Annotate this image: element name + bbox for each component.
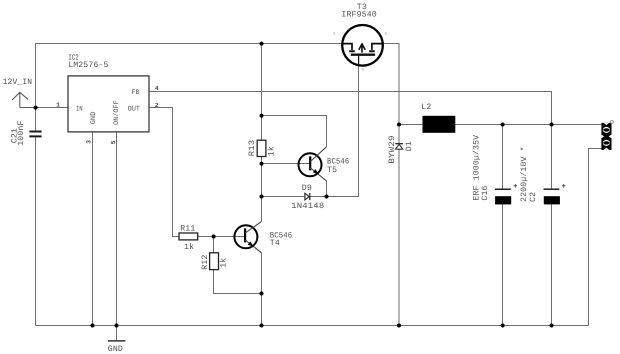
svg-text:BYW29: BYW29 bbox=[388, 135, 397, 164]
pin number 3 (IC2 GND) bbox=[86, 140, 93, 144]
wire C21 branch down to ground rail bbox=[35, 108, 37, 326]
svg-text:D1: D1 bbox=[405, 141, 414, 151]
svg-text:2: 2 bbox=[155, 102, 159, 109]
svg-text:1k: 1k bbox=[268, 146, 277, 156]
resistor R12 1k bbox=[201, 253, 229, 270]
pin number 1 (IC2 IN) bbox=[56, 102, 60, 109]
svg-text:R13: R13 bbox=[248, 140, 257, 157]
svg-text:3: 3 bbox=[86, 140, 93, 144]
op-amp IC2 LM2576-5 regulator box bbox=[68, 54, 149, 132]
svg-text:1k: 1k bbox=[184, 243, 194, 252]
transistor T4 BC546 bbox=[234, 221, 292, 252]
node T5 collector tap bbox=[260, 114, 264, 118]
wire FB feedback from IC2 pin 4 to output node bbox=[150, 92, 552, 125]
node D9 anode / T4 collector bbox=[260, 195, 264, 199]
transistor T3 IRF9540 p-mosfet bbox=[333, 3, 388, 73]
node C2 top / FB sense bbox=[550, 123, 554, 127]
wire top +12V rail from input to T3 source bbox=[36, 44, 343, 108]
capacitor C21 100nF bbox=[10, 120, 41, 145]
wire D9 anode side bbox=[262, 196, 305, 198]
svg-text:1N4148: 1N4148 bbox=[291, 202, 324, 211]
node R12/T4 emitter bbox=[260, 292, 264, 296]
node R11/R12/T4 base bbox=[212, 235, 216, 239]
svg-text:12V_IN: 12V_IN bbox=[3, 78, 33, 87]
wire C2 stems bbox=[551, 125, 553, 326]
wire R12 top stem bbox=[213, 237, 215, 253]
node switch output / D1 / L2 bbox=[397, 123, 401, 127]
wire R12 bottom to T4 emitter bbox=[214, 270, 262, 294]
wire OUT pin 2 of IC2 down to R11 bbox=[150, 108, 180, 237]
svg-text:ON/OFF: ON/OFF bbox=[112, 100, 121, 125]
svg-text:FB: FB bbox=[132, 89, 140, 97]
pin number 5 (IC2 ON/OFF) bbox=[110, 140, 117, 144]
node C16 ground junction bbox=[501, 324, 505, 328]
wire output return from connector to ground rail bbox=[589, 149, 602, 326]
svg-text:D: D bbox=[385, 32, 388, 37]
resistor R13 1k bbox=[248, 140, 276, 157]
svg-text:S: S bbox=[333, 32, 336, 37]
svg-text:IRF9540: IRF9540 bbox=[341, 10, 377, 19]
pin number 2 (IC2 OUT) bbox=[155, 102, 159, 109]
transistor T5 BC546 bbox=[299, 147, 350, 181]
svg-text:1k: 1k bbox=[220, 258, 229, 268]
node IC2 GND on ground rail bbox=[91, 324, 95, 328]
node ON/OFF ground junction bbox=[115, 324, 119, 328]
pin number 4 (IC2 FB) bbox=[155, 85, 159, 92]
wire D1 stems bbox=[398, 125, 400, 326]
svg-text:OUT: OUT bbox=[128, 106, 140, 114]
svg-text:R11: R11 bbox=[180, 225, 195, 234]
node C16 top bbox=[501, 123, 505, 127]
node C2 ground junction bbox=[550, 324, 554, 328]
wire D9 cathode to T3 gate bbox=[310, 66, 358, 197]
svg-text:5: 5 bbox=[110, 140, 117, 144]
svg-text:D9: D9 bbox=[302, 184, 312, 193]
node T4 emitter ground junction bbox=[260, 324, 264, 328]
capacitor C2 2200u/10V bbox=[520, 146, 565, 204]
wire T4 collector up to D9 node bbox=[261, 197, 263, 222]
node R13 top on +12V rail bbox=[260, 42, 264, 46]
svg-text:T4: T4 bbox=[270, 239, 280, 248]
wire IC2 GND pin 3 to ground rail bbox=[92, 132, 94, 326]
svg-text:C2: C2 bbox=[529, 192, 538, 202]
svg-text:G: G bbox=[362, 68, 365, 73]
svg-text:4: 4 bbox=[155, 85, 159, 92]
wire T3 drain to L2 node bbox=[383, 44, 399, 125]
diode D1 BYW29 bbox=[388, 135, 414, 164]
node input junction at C21 bbox=[34, 106, 38, 110]
inductor L2 bbox=[421, 103, 455, 133]
wire R11 to T4 base bbox=[198, 236, 245, 238]
connector X1 output header bbox=[601, 120, 613, 150]
node A R13/T5 base bbox=[260, 162, 264, 166]
wire L2 output line to connector bbox=[399, 124, 602, 126]
svg-text:L2: L2 bbox=[421, 103, 431, 112]
wire T5 emitter down to gate net bbox=[326, 181, 328, 197]
svg-text:GND: GND bbox=[108, 345, 123, 354]
svg-text:IN: IN bbox=[76, 106, 83, 114]
svg-text:T5: T5 bbox=[327, 166, 337, 175]
resistor R11 1k bbox=[179, 225, 198, 253]
capacitor C16 ERF 1000u/35V bbox=[473, 135, 517, 205]
svg-text:C16: C16 bbox=[481, 185, 490, 200]
ground symbol GND bbox=[108, 326, 126, 354]
svg-text:LM2576-5: LM2576-5 bbox=[68, 61, 108, 70]
wire T5 base bbox=[262, 163, 310, 165]
wire C16 stems bbox=[502, 125, 504, 326]
node D9 cathode / T5 emitter / T3 gate bbox=[325, 195, 329, 199]
svg-text:100nF: 100nF bbox=[17, 120, 26, 145]
diode D9 1N4148 bbox=[291, 184, 324, 211]
input arrow 12V_IN bbox=[3, 78, 36, 107]
svg-text:R12: R12 bbox=[201, 255, 210, 270]
svg-text:GND: GND bbox=[90, 112, 98, 125]
wire R13 top stem from +12V rail bbox=[261, 44, 263, 141]
wire T4 emitter down to ground rail bbox=[261, 253, 263, 326]
wire IN pin of IC2 bbox=[36, 107, 68, 109]
wire bottom ground rail bbox=[36, 325, 589, 327]
svg-text:1: 1 bbox=[56, 102, 60, 109]
wire T5 collector to +12V tap bbox=[262, 116, 327, 147]
node D1 anode ground junction bbox=[397, 324, 401, 328]
wire R13 bottom to D9 node bbox=[261, 157, 263, 197]
wire IC2 ON/OFF pin 5 to ground rail bbox=[116, 132, 118, 326]
